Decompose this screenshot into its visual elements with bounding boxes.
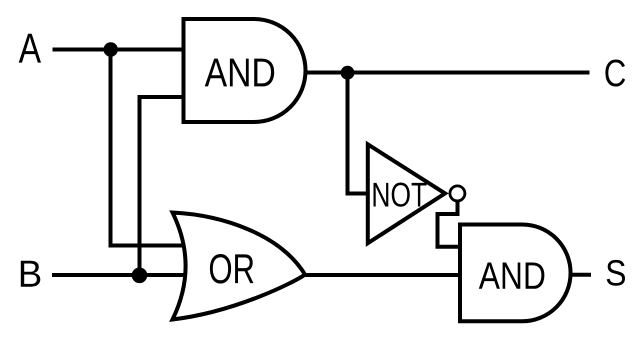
inverter bubble of NOT1 — [450, 186, 465, 201]
wire AND2 output to S — [568, 273, 591, 277]
wire NOT input vertical from node C — [346, 73, 350, 194]
wire NOT input horizontal — [346, 192, 373, 196]
input label B — [21, 261, 41, 287]
or-gate OR1 label — [210, 254, 254, 284]
not-gate NOT1 triangle — [368, 144, 445, 243]
wire input B horizontal — [52, 273, 195, 277]
and-gate AND2 body — [460, 225, 571, 322]
input label A — [19, 34, 41, 63]
wire input A horizontal — [53, 48, 189, 52]
wire AND1 output to C — [300, 71, 590, 75]
or-gate OR1 body — [173, 213, 306, 320]
output label S — [607, 260, 625, 286]
node A junction dot — [104, 42, 118, 56]
output label C — [605, 60, 625, 87]
node B junction dot — [132, 268, 148, 284]
wire A branch vertical — [109, 48, 113, 246]
wire B branch horizontal to AND1 input 2 — [138, 95, 189, 99]
node C junction dot — [341, 66, 355, 80]
and-gate AND2 label — [479, 263, 545, 289]
and-gate AND1 label — [205, 59, 275, 87]
wire B riser vertical — [138, 97, 142, 277]
wire OR output to AND2 input 2 — [298, 273, 462, 277]
and-gate AND1 body — [184, 19, 306, 122]
not-gate NOT1 label — [374, 183, 427, 207]
wire NOT output jog to AND2 input 1 — [438, 199, 463, 247]
wire A branch horizontal to OR input 1 — [109, 244, 196, 248]
